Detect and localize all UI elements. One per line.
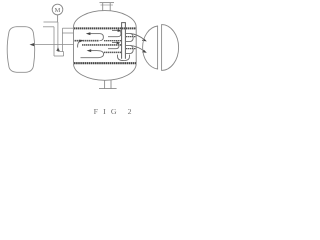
partition downcomer xyxy=(122,23,126,59)
partition flow arrowhead lower xyxy=(117,42,121,45)
svg-text:2: 2 xyxy=(128,107,132,116)
vessel top dome xyxy=(74,11,137,28)
outlet arrow lower xyxy=(131,45,145,51)
split sphere right half xyxy=(162,25,179,71)
flow arrow row1 xyxy=(90,33,100,35)
support base xyxy=(99,88,117,90)
right section band lower xyxy=(126,48,136,50)
tray band 2 right part xyxy=(104,40,121,42)
motor symbol M xyxy=(52,4,63,15)
hook near partition upper xyxy=(108,30,121,36)
vessel support legs xyxy=(104,80,106,89)
vessel feed pipe inner vertical xyxy=(61,28,63,51)
svg-text:M: M xyxy=(55,7,61,14)
right section band upper xyxy=(126,36,136,38)
motor stem xyxy=(57,15,59,23)
tray band 3 xyxy=(104,51,121,53)
nozzle neck xyxy=(102,3,104,11)
u-turn right row1-2 xyxy=(100,34,104,41)
downcomer pipe right line xyxy=(57,22,59,52)
vessel feed pipe lower line xyxy=(62,32,73,34)
tray band mid xyxy=(82,44,121,46)
vessel right wall xyxy=(135,27,137,64)
outlet arrow upper xyxy=(131,34,145,40)
hook loop row2 down xyxy=(81,51,104,58)
return line arrow into tank xyxy=(33,44,74,46)
svg-text:FIG: FIG xyxy=(94,107,122,116)
bottom tray band xyxy=(74,62,136,64)
flow arrow row2 xyxy=(91,50,97,52)
vessel feed pipe upper line xyxy=(62,27,73,29)
split sphere left half xyxy=(143,26,158,69)
downcomer pipe left line xyxy=(53,27,55,56)
background paper xyxy=(0,0,180,120)
up-curl arrow at left wall xyxy=(78,41,81,48)
pipe bottom stub right xyxy=(63,52,65,56)
partition flow arrowhead upper xyxy=(118,29,122,32)
pipe lower horizontal (bottom line) xyxy=(43,26,54,28)
vessel bottom dome xyxy=(74,64,137,81)
pipe flow arrowhead up xyxy=(56,47,60,51)
vessel top nozzle flange xyxy=(100,2,115,4)
pipe upper horizontal (top line) xyxy=(44,21,59,23)
hook near partition mid xyxy=(108,43,119,49)
bottom u-turn under partition xyxy=(118,55,130,61)
pipe bottom stub top xyxy=(58,51,64,53)
right section loop upper xyxy=(126,33,133,41)
pipe bottom stub bottom xyxy=(54,55,64,57)
vessel left wall xyxy=(73,27,75,64)
tray band 1 xyxy=(74,27,136,29)
right section loop lower xyxy=(126,45,133,53)
tray band 2 xyxy=(75,40,100,42)
left storage tank xyxy=(7,27,35,73)
